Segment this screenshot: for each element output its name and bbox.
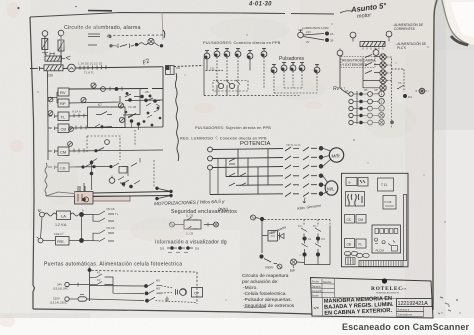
frame left border bbox=[30, 17, 35, 309]
plc small box bbox=[392, 246, 398, 252]
col2 node2 bbox=[316, 252, 320, 256]
RP coil circle bbox=[291, 259, 297, 265]
LA node left bbox=[40, 212, 45, 217]
col2 node bbox=[316, 236, 320, 240]
col1 contact2 bbox=[302, 241, 308, 253]
CM contact bbox=[98, 148, 104, 151]
ML feed lines bbox=[323, 176, 328, 194]
left edge pink smudge mid bbox=[10, 140, 24, 152]
plc inner squares bbox=[375, 229, 379, 234]
RP row contact bbox=[81, 97, 86, 102]
terminal 220v bbox=[65, 297, 69, 301]
CB row contact circles bbox=[118, 103, 123, 108]
register lamp L3 bbox=[380, 70, 386, 76]
visualizador symbols row bbox=[160, 246, 199, 250]
contacts lower pair bbox=[99, 230, 114, 242]
ticks above busbar1 bbox=[46, 53, 54, 56]
timer box bbox=[268, 231, 278, 242]
luminoso node 2 bbox=[325, 38, 329, 42]
pink highlight band bbox=[93, 196, 130, 201]
rail stubs to coils bbox=[48, 92, 58, 169]
main bus line bbox=[63, 67, 163, 69]
row TL wire bbox=[69, 115, 140, 117]
col2 contact2 bbox=[315, 241, 321, 253]
MR row end circles bbox=[319, 147, 323, 151]
row CM wire bbox=[69, 150, 163, 151]
tb main title bbox=[324, 296, 395, 317]
sub box K bbox=[88, 107, 126, 128]
center cluster contact c bbox=[128, 114, 136, 118]
LA squiggle right bbox=[71, 213, 79, 216]
RV row contact 2 bbox=[101, 87, 106, 92]
bus continue dashes bbox=[174, 66, 203, 67]
TL ticks labels bbox=[74, 114, 84, 118]
row2 switch chain bbox=[112, 44, 134, 49]
pb group contacts bbox=[216, 80, 240, 85]
paper mottling patches bbox=[42, 18, 416, 242]
registro switch 1 bbox=[365, 55, 380, 58]
wire dashed row1 bbox=[113, 34, 163, 37]
tick labels under fuses bbox=[42, 53, 55, 54]
ML contact row 3 bbox=[285, 193, 317, 197]
contact under bbox=[118, 177, 140, 185]
panel cabinet outline bbox=[342, 173, 409, 266]
pushbutton P5 bbox=[247, 51, 253, 59]
wire freno to contacts bbox=[84, 233, 99, 241]
LA box bbox=[57, 211, 71, 220]
grid contact 1 bbox=[229, 159, 235, 165]
panel bottom rail bbox=[359, 261, 403, 267]
alim busbar hatched bbox=[360, 42, 385, 47]
interlock left terminal bbox=[170, 222, 175, 227]
branch join bbox=[262, 235, 280, 237]
paper bright bottom bbox=[0, 230, 240, 320]
register lamp L5 bbox=[380, 85, 386, 91]
relay coil TL bbox=[58, 112, 69, 121]
panel ovals row1 bbox=[344, 251, 350, 255]
col1 contact FC bbox=[301, 228, 307, 236]
CM ticks bbox=[74, 149, 84, 153]
pushbutton cabin c1 bbox=[271, 65, 277, 73]
phase wire S bbox=[212, 158, 283, 159]
rail hatch bbox=[361, 261, 401, 267]
wavy wire row2 bbox=[138, 43, 148, 45]
alim lamp pole right bbox=[386, 31, 392, 37]
phase wire T bbox=[212, 167, 283, 168]
ground cap bbox=[165, 297, 169, 302]
interlock wire left bbox=[175, 224, 185, 226]
node m3 bbox=[145, 299, 149, 303]
panel box FL bbox=[356, 239, 366, 248]
call row 3 bbox=[349, 106, 385, 112]
CP box bbox=[192, 288, 203, 298]
tb number box bbox=[397, 299, 433, 307]
panel box CS bbox=[345, 215, 355, 224]
left edge pink smudge top bbox=[7, 2, 19, 18]
transformer top feed bbox=[78, 183, 84, 192]
RP node bbox=[144, 99, 148, 103]
registro switch 3 bbox=[365, 71, 380, 74]
fuse F2 circle bbox=[58, 30, 64, 36]
MR feed lines bbox=[323, 148, 331, 166]
dashed join 13L bbox=[206, 70, 224, 72]
register left rail bbox=[363, 58, 380, 89]
phase input T bbox=[208, 165, 213, 170]
bus end arrows bbox=[158, 189, 170, 199]
panel ovals row2 bbox=[356, 253, 362, 257]
row CB wire bbox=[69, 127, 163, 128]
dashed wire to plug bbox=[392, 69, 405, 92]
left edge pink smudge bottom bbox=[0, 315, 15, 327]
sub box contact bbox=[96, 112, 112, 115]
frame bottom border bbox=[33, 309, 312, 314]
relay coil CB bbox=[58, 124, 69, 133]
cb2 row contacts right bbox=[113, 163, 137, 167]
MR contact row 2 bbox=[285, 156, 317, 160]
schematic frame top border bbox=[30, 13, 334, 18]
connector dashed box bbox=[213, 81, 248, 92]
busbar 1 hatched bbox=[45, 56, 65, 61]
underline seguridad bbox=[244, 307, 266, 309]
reapertura top dashed bbox=[264, 219, 330, 221]
wire 220 bbox=[69, 298, 77, 300]
label PASO bbox=[88, 44, 97, 46]
bottom white band bbox=[0, 318, 474, 335]
RV row contact circle bbox=[91, 83, 96, 88]
center long squiggle wire bbox=[175, 73, 178, 161]
frame top overmark bbox=[88, 10, 112, 12]
center cluster contact b bbox=[146, 98, 160, 101]
call row 5 bbox=[349, 120, 394, 126]
transformer marks bbox=[78, 194, 89, 202]
node m1 bbox=[144, 284, 148, 288]
junction box on bus bbox=[166, 66, 175, 75]
vertical rail puertas bbox=[89, 270, 91, 301]
reapertura node bbox=[256, 218, 260, 219]
lower node bbox=[259, 254, 263, 258]
handwriting asunto underline bbox=[340, 11, 352, 13]
lamp alarma bbox=[148, 38, 154, 44]
tb sub box2 bbox=[397, 312, 424, 317]
registros circle bbox=[337, 50, 343, 56]
join to RP bbox=[297, 261, 305, 264]
phase wire R bbox=[212, 149, 283, 150]
panel box FCB bbox=[383, 196, 396, 210]
curl shadow curve bbox=[442, 0, 469, 45]
white wedge page curl bbox=[442, 0, 474, 45]
center cluster extra strokes bbox=[128, 103, 160, 118]
cols bottom join bbox=[305, 226, 331, 265]
contact K1 bbox=[96, 274, 110, 278]
fuse F1 circle bbox=[42, 31, 48, 37]
pushbutton P6 bbox=[261, 49, 267, 57]
TA contact bbox=[397, 85, 404, 89]
crease line top bbox=[162, 12, 163, 40]
luminoso wires bbox=[303, 34, 324, 41]
register lamp L1 bbox=[380, 54, 386, 60]
rising wire to transformer bbox=[46, 186, 85, 196]
contact right low bbox=[123, 180, 129, 184]
panel box T11 bbox=[378, 178, 394, 191]
tb left grid bbox=[311, 279, 397, 298]
bus left stub bbox=[30, 67, 44, 71]
alim bar ticks bbox=[363, 48, 383, 50]
center cluster contact a bbox=[125, 94, 140, 97]
CB row ticks bbox=[76, 126, 86, 130]
row RP wire bbox=[69, 96, 163, 103]
right strip upper gray bbox=[434, 0, 474, 130]
pushbutton P3 bbox=[224, 49, 230, 57]
freno wire left bbox=[43, 240, 55, 242]
grid contact 3 bbox=[229, 183, 246, 186]
paper shading top right bbox=[300, 0, 446, 90]
plug symbol circled plus bbox=[416, 90, 419, 92]
smudges right of tb bbox=[438, 297, 451, 314]
left coil squiggle bbox=[45, 163, 47, 196]
terminal 24v bbox=[65, 282, 69, 286]
panel box O+ bbox=[346, 178, 357, 186]
phase input R bbox=[208, 147, 213, 152]
FRENO node left bbox=[38, 238, 43, 243]
FRENO box bbox=[56, 237, 70, 246]
left branch vertical bbox=[261, 221, 263, 253]
panel breaker box bbox=[346, 192, 365, 207]
cabin pb droppers dashed bbox=[274, 71, 317, 93]
col1 node bbox=[302, 236, 306, 240]
ink dot top left bbox=[17, 7, 19, 9]
pushbutton P1 bbox=[204, 51, 210, 59]
puertas top node bbox=[88, 268, 92, 272]
pushbutton P2 bbox=[214, 49, 220, 57]
switch m1 bbox=[148, 283, 161, 287]
RV row small ticks bbox=[110, 87, 122, 92]
paper grain filter bbox=[0, 0, 1, 1]
hook end row1 bbox=[163, 30, 165, 38]
pink smudge right mid bbox=[304, 101, 322, 109]
meter circle on bus bbox=[68, 64, 76, 72]
row mid wire bbox=[90, 285, 145, 288]
panel right rail bbox=[404, 195, 407, 261]
ladder left rail bbox=[47, 71, 50, 161]
register call rows rail bbox=[356, 91, 358, 124]
call row 2 bbox=[349, 99, 385, 105]
relay coil RV bbox=[58, 88, 69, 96]
center cluster wire down bbox=[132, 121, 139, 130]
rotelec dot bbox=[382, 278, 387, 283]
wire LA to contacts bbox=[84, 214, 99, 221]
micro contact bbox=[264, 259, 277, 264]
diode symbol bbox=[280, 233, 285, 240]
ladder mid vertical bbox=[139, 89, 141, 115]
title block outline bbox=[311, 278, 434, 319]
interlock right terminal bbox=[214, 222, 219, 227]
pushbutton P4 bbox=[235, 49, 241, 57]
motor ML bbox=[325, 181, 338, 195]
panel box CB bbox=[345, 239, 355, 248]
fuse F2 body bbox=[58, 40, 64, 51]
pushbutton cabin c4 bbox=[299, 63, 305, 71]
LA node right bbox=[79, 212, 84, 217]
ML contact row 2 bbox=[285, 184, 317, 188]
panel box MA bbox=[358, 178, 368, 187]
gray corner behind wedge bbox=[434, 0, 474, 50]
call row 4 bbox=[349, 113, 385, 119]
cabin group join dashed bbox=[274, 88, 317, 93]
alim lamp below bbox=[373, 50, 379, 56]
panel plc box bbox=[372, 225, 401, 253]
wire 220b bbox=[87, 299, 145, 301]
pushbutton cabin c5 bbox=[314, 65, 320, 73]
panel tick boxes bbox=[346, 258, 356, 265]
dashes to photocell bbox=[156, 286, 198, 303]
aux box 2 bbox=[119, 167, 127, 174]
mid contact cluster row bbox=[95, 124, 112, 127]
CB2 contact bbox=[85, 164, 91, 167]
photocell circle bbox=[180, 289, 187, 296]
interlock contacts bbox=[187, 217, 198, 229]
register lamp L2 bbox=[380, 62, 386, 68]
right inner shading bbox=[405, 50, 435, 320]
cb2 node column bbox=[90, 161, 94, 165]
interlock wire right bbox=[204, 224, 214, 226]
cluster nodes bbox=[122, 182, 126, 186]
col1 node2 bbox=[302, 252, 306, 256]
grid contact 2 bbox=[229, 173, 246, 176]
lamp under cb2 bbox=[109, 178, 115, 184]
arrow down to handwriting bbox=[303, 198, 306, 204]
wire 24v bbox=[69, 284, 89, 286]
col2 contact FC bbox=[315, 228, 321, 236]
FRENO node right bbox=[79, 238, 84, 243]
contacts CR TL upper bbox=[99, 211, 114, 222]
lower wire verticals bbox=[210, 159, 218, 195]
wedge bright core bbox=[451, 2, 474, 37]
transformer box pink bbox=[75, 192, 94, 205]
right rail of ladder bbox=[162, 67, 164, 127]
alim lamp pole left bbox=[350, 32, 356, 38]
relay coil CB2 bbox=[58, 163, 69, 172]
row RV wire bbox=[69, 88, 163, 91]
relay coil CM bbox=[58, 147, 69, 156]
bottom edge shadow bbox=[0, 313, 90, 318]
motor MR bbox=[329, 148, 343, 162]
registro switch 2 bbox=[365, 63, 380, 66]
dashed right edge bbox=[196, 272, 198, 304]
left margin lighter bbox=[0, 0, 30, 320]
connector circles bbox=[218, 83, 223, 88]
MR contact row 3 bbox=[285, 165, 317, 169]
vertical join LA freno bbox=[41, 215, 82, 239]
center vertical stub bbox=[134, 130, 136, 146]
lower phase wires bbox=[210, 176, 283, 195]
RV row node bbox=[115, 87, 119, 91]
connector bottom wire dashed bbox=[204, 95, 300, 97]
LA squiggle left bbox=[44, 213, 56, 216]
contact K2 bbox=[96, 282, 110, 286]
switch m3 bbox=[149, 297, 155, 301]
panel box CM bbox=[356, 215, 366, 224]
pink smudge center bbox=[194, 103, 216, 113]
register right dashed rail bbox=[387, 57, 392, 128]
row mid2 wire bbox=[113, 284, 144, 293]
cb2 aux wire bbox=[128, 158, 140, 176]
rail contact circles bbox=[48, 97, 53, 102]
double bus to right lower bbox=[93, 196, 170, 197]
micro terminal bbox=[277, 264, 282, 269]
tb sub box1 bbox=[397, 307, 424, 312]
node m2 bbox=[145, 292, 149, 296]
MR contact row 1 bbox=[285, 147, 317, 151]
fuse F1 body bbox=[42, 39, 48, 50]
bus ticks bbox=[80, 65, 106, 69]
pb droppers left group bbox=[207, 59, 250, 71]
label PARPA bbox=[88, 34, 100, 37]
switch m2 bbox=[149, 290, 162, 293]
DA node bbox=[403, 94, 407, 98]
switch ball row1 bbox=[107, 35, 111, 37]
dashed region edge bbox=[153, 160, 155, 187]
dashed drops bbox=[304, 220, 330, 226]
dashed top wire bbox=[92, 271, 198, 273]
stub wires k bbox=[90, 277, 114, 285]
interlock box bbox=[184, 220, 201, 229]
wire into transformer bbox=[46, 195, 75, 198]
dashed sub box lower bbox=[87, 136, 120, 160]
freno wire right bbox=[69, 240, 80, 242]
luminoso circle bbox=[298, 32, 304, 38]
visualizador row 2 bbox=[168, 252, 188, 254]
relay coil RP bbox=[58, 99, 69, 107]
pushbutton cabin c3 bbox=[290, 63, 296, 71]
fuse oval 220 bbox=[78, 297, 87, 301]
pushbutton cabin c2 bbox=[281, 63, 287, 71]
center cluster extra nodes bbox=[125, 92, 162, 126]
ML row end circles bbox=[319, 174, 323, 178]
row CB2 wire bbox=[69, 166, 110, 169]
svg-text:Escaneado con CamScanner: Escaneado con CamScanner bbox=[342, 322, 469, 332]
page right edge line bbox=[433, 0, 437, 310]
phase input S bbox=[208, 156, 213, 161]
tb escala cell bbox=[322, 298, 324, 316]
call row 1 bbox=[349, 91, 385, 97]
breaker slots bbox=[348, 194, 362, 206]
register lamp L4 bbox=[380, 77, 386, 83]
registros feed wire bbox=[340, 56, 349, 94]
right gray strip bbox=[434, 0, 474, 320]
double bus to right upper bbox=[93, 192, 170, 194]
reapertura terminal bbox=[251, 215, 256, 220]
ML contact row 1 bbox=[285, 175, 317, 179]
luminoso node 1 bbox=[325, 32, 329, 36]
row2 end switch bbox=[154, 43, 159, 47]
curl dark base bbox=[451, 36, 468, 45]
busbar 2 hatched bbox=[44, 65, 63, 71]
cap symbol bbox=[176, 289, 178, 295]
potencia grid verticals bbox=[226, 149, 268, 195]
